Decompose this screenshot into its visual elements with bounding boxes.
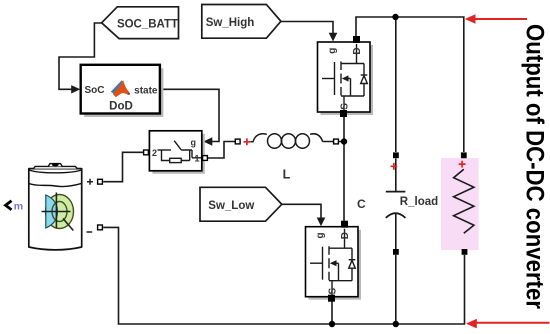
svg-text:DoD: DoD — [109, 101, 133, 113]
svg-text:2: 2 — [152, 148, 157, 158]
svg-text:g: g — [191, 138, 197, 148]
svg-text:state: state — [134, 85, 158, 96]
svg-text:L: L — [283, 168, 291, 182]
svg-text:R_load: R_load — [400, 196, 438, 208]
svg-text:1: 1 — [195, 154, 200, 164]
svg-text:Sw_High: Sw_High — [206, 17, 255, 29]
svg-text:m: m — [14, 201, 23, 213]
svg-text:SoC: SoC — [85, 85, 105, 96]
svg-text:C: C — [357, 197, 366, 211]
svg-text:Sw_Low: Sw_Low — [208, 200, 254, 212]
svg-text:SOC_BATT: SOC_BATT — [117, 18, 178, 30]
svg-text:Output of DC-DC converter: Output of DC-DC converter — [521, 24, 549, 309]
